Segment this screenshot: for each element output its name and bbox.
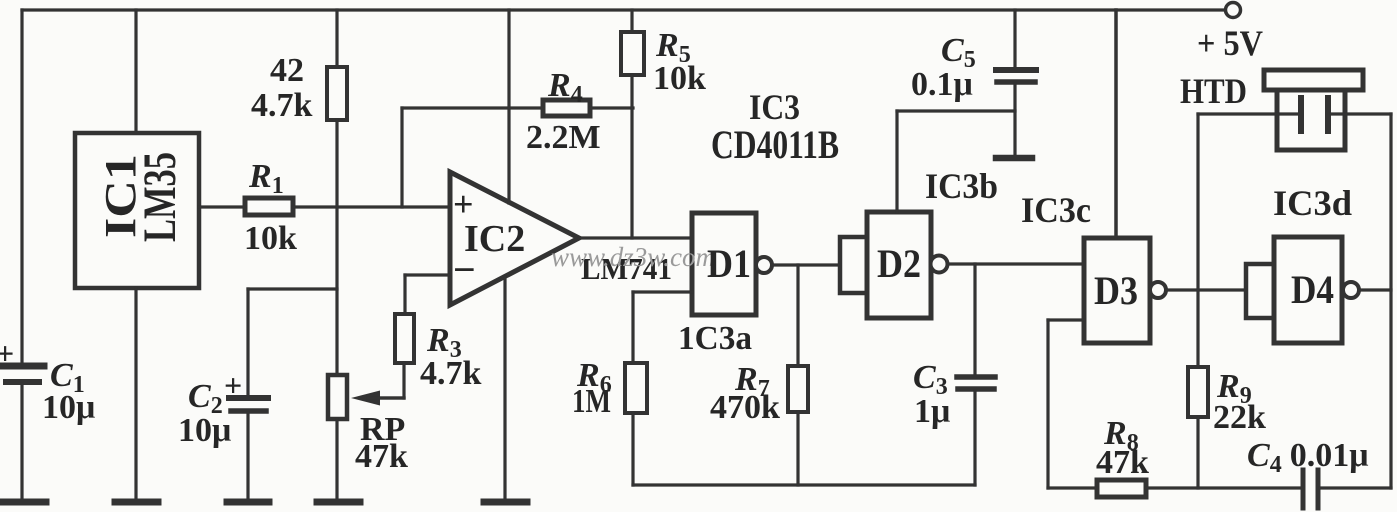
svg-text:R1: R1 xyxy=(248,158,284,199)
wire oscillator bottom net xyxy=(633,483,975,486)
D3 output bubble xyxy=(1150,282,1166,298)
wire D2 out to D3 xyxy=(948,262,1084,265)
wire inverting input xyxy=(405,275,449,314)
NAND gate D2 input bracket xyxy=(840,237,868,293)
capacitor C5 xyxy=(996,10,1036,155)
svg-text:IC2: IC2 xyxy=(464,218,525,260)
node +5V terminal xyxy=(1226,3,1241,18)
NAND gate D4 xyxy=(1274,237,1342,343)
svg-text:IC3: IC3 xyxy=(749,87,800,127)
RP wiper arrow xyxy=(351,391,404,406)
wire HTD right xyxy=(1331,112,1391,115)
svg-text:1M: 1M xyxy=(572,383,611,420)
D1 output bubble xyxy=(756,257,772,273)
resistor R8 xyxy=(1097,480,1146,497)
svg-text:47k: 47k xyxy=(355,438,408,475)
capacitor C2 xyxy=(229,289,268,500)
D4 output bubble xyxy=(1343,282,1359,298)
wire D4 out xyxy=(1359,288,1391,291)
ground (C1) xyxy=(2,499,46,506)
svg-text:42: 42 xyxy=(270,52,304,89)
svg-text:10k: 10k xyxy=(653,60,706,97)
op-amp U1 IC2 triangle xyxy=(450,172,579,305)
wire op-amp V- pin xyxy=(503,277,506,500)
wire D2 top pin xyxy=(895,111,898,212)
capacitor C4 xyxy=(1303,470,1391,508)
svg-text:1C3a: 1C3a xyxy=(678,320,752,357)
capacitor C1 xyxy=(1,366,44,500)
wire IC1 bottom pin xyxy=(134,288,137,500)
wire D3 out to D4 xyxy=(1166,288,1246,291)
resistor R6 xyxy=(625,363,647,485)
D2 output bubble xyxy=(931,256,948,273)
svg-text:1μ: 1μ xyxy=(914,393,950,430)
wire op-amp output to D1 xyxy=(579,236,692,239)
wire left edge down to C1 xyxy=(20,10,23,364)
svg-text:IC3c: IC3c xyxy=(1021,190,1091,230)
svg-text:CD4011B: CD4011B xyxy=(711,122,839,167)
wire D1 out to D2 xyxy=(772,263,840,266)
wire bottom right net xyxy=(1048,486,1097,489)
NAND gate D4 input bracket xyxy=(1246,264,1274,318)
resistor R1 xyxy=(199,198,449,215)
NAND gate D3 xyxy=(1084,238,1150,343)
svg-text:22k: 22k xyxy=(1213,399,1266,436)
svg-text:LM35: LM35 xyxy=(134,152,186,242)
capacitor C3 xyxy=(957,264,995,485)
svg-text:HTD: HTD xyxy=(1180,71,1247,111)
svg-text:C40.01μ: C40.01μ xyxy=(1247,437,1368,478)
wire right edge xyxy=(1389,114,1392,488)
wire D3 input 2 xyxy=(1048,320,1084,488)
svg-text:10μ: 10μ xyxy=(178,412,231,449)
resistor R7 xyxy=(788,265,808,485)
wire R4 feedback vertical xyxy=(400,108,403,207)
svg-text:2.2M: 2.2M xyxy=(526,119,601,156)
wire op-amp V+ pin xyxy=(507,10,510,203)
svg-text:4.7k: 4.7k xyxy=(420,355,482,392)
ground (op-amp) xyxy=(484,499,527,506)
svg-text:www.dz3w.com: www.dz3w.com xyxy=(551,242,715,272)
buzzer HTD xyxy=(1264,70,1363,150)
svg-text:D4: D4 xyxy=(1291,267,1334,312)
ground (RP) xyxy=(317,499,360,506)
svg-text:+: + xyxy=(0,335,14,371)
wire HTD left xyxy=(1198,112,1298,115)
wire D3 top pin xyxy=(1114,10,1118,238)
resistor R4 xyxy=(402,100,633,116)
svg-text:10k: 10k xyxy=(244,220,297,257)
svg-text:D3: D3 xyxy=(1094,268,1138,313)
svg-text:IC3b: IC3b xyxy=(925,166,998,206)
resistor R9 xyxy=(1188,114,1208,488)
svg-text:10μ: 10μ xyxy=(42,389,95,426)
svg-text:47k: 47k xyxy=(1096,444,1149,481)
svg-text:470k: 470k xyxy=(710,389,780,426)
svg-text:R4: R4 xyxy=(547,67,583,108)
svg-text:D2: D2 xyxy=(877,241,921,286)
ground (C2) xyxy=(227,499,269,506)
wire R8 to C4 xyxy=(1146,486,1301,489)
NAND gate D2 xyxy=(867,212,931,318)
wire C5 to D2 xyxy=(897,109,1015,112)
potentiometer RP xyxy=(328,375,347,500)
resistor R3 xyxy=(368,314,414,398)
svg-text:0.1μ: 0.1μ xyxy=(911,66,973,103)
IC1 LM35 box xyxy=(75,133,199,288)
wire IC1 top pin xyxy=(134,10,137,133)
svg-text:+: + xyxy=(224,367,242,403)
svg-text:+ 5V: + 5V xyxy=(1197,23,1263,63)
ground bar (C5) xyxy=(996,155,1032,162)
svg-text:D1: D1 xyxy=(707,241,751,286)
resistor 4.7k (42) xyxy=(327,10,347,375)
wire D1 input 2 xyxy=(633,292,692,363)
wire top +5V rail xyxy=(22,8,1225,11)
svg-text:4.7k: 4.7k xyxy=(251,87,313,124)
resistor R5 xyxy=(621,10,644,238)
wire C2 top xyxy=(248,287,337,290)
NAND gate D1 xyxy=(692,213,756,315)
svg-text:IC3d: IC3d xyxy=(1273,183,1352,223)
ground (IC1) xyxy=(115,499,158,506)
